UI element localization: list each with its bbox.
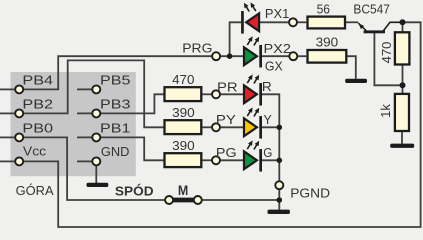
svg-text:PX2: PX2 [263,42,290,56]
resistor 470 vertical [395,32,410,64]
wire LED PX1 anode to pin PX1 [258,21,288,23]
svg-text:PB5: PB5 [100,74,130,88]
pin PB2 [15,109,23,117]
pin PX2 [289,52,297,60]
svg-text:SPÓD: SPÓD [115,184,154,199]
wire Vcc stub left [0,160,14,162]
jumper M shunt [170,198,197,203]
wire PB2 stub left [0,112,14,114]
wire resistor 56 to Q1 emitter [345,21,358,23]
wire PB0 to jumper M [24,137,165,200]
ground under GND pin [87,183,109,187]
wire resistor 470 vertical to resistor 1k [402,66,404,94]
resistor 56 [308,17,346,29]
svg-text:PB3: PB3 [100,98,130,112]
LED Y (yellow) [244,107,262,138]
wire Q1 base to divider node [374,33,402,85]
svg-text:Vcc: Vcc [23,144,47,158]
wire collector node to resistor 470 vertical [402,22,404,31]
svg-text:PR: PR [217,79,238,94]
svg-text:PY: PY [216,112,237,127]
wire GND stub [77,160,92,162]
wire jumper M to PGND node [203,199,280,201]
svg-text:390: 390 [172,105,195,120]
pin PB3 [92,109,100,117]
wire PRG node to LED PX2 anode [221,55,244,57]
svg-text:M: M [178,182,188,198]
connector J1 body (GÓRA/SPÓD header) [11,72,136,176]
svg-text:GND: GND [101,144,130,159]
wire node PRG up to LED PX1 cathode bar [230,22,241,56]
svg-text:470: 470 [379,42,394,64]
svg-text:56: 56 [317,2,330,17]
wire PB0 stub left [0,136,14,138]
pin PRG [212,52,220,60]
wire pin PG to LED G anode [221,159,244,161]
svg-text:PB0: PB0 [22,122,53,136]
pin PY [212,123,220,131]
pin PB0 [15,133,23,141]
wire LED Y cathode to bus [262,126,279,128]
wire GND pin to ground [95,165,97,184]
svg-text:R: R [262,79,272,94]
wire PB1 to resistor 390 (G row) [101,137,164,160]
wire PB1 stub [77,136,92,138]
pin PB5 [92,85,100,93]
wire pin PY to LED Y anode [221,126,244,128]
transistor Q1 collector lead [383,22,403,31]
svg-text:GÓRA: GÓRA [16,183,54,198]
node at divider [400,82,406,88]
svg-text:1k: 1k [378,104,393,118]
pin PGND [275,181,283,189]
svg-text:PB2: PB2 [22,98,53,112]
svg-text:BC547: BC547 [353,2,390,17]
LED R (red) [244,74,262,105]
wire PB2 to resistor 390 (Y row) [24,60,164,127]
pin PG [212,156,220,164]
transistor Q1 BC547 base bar [364,30,385,33]
svg-text:PB4: PB4 [22,74,53,88]
wire resistor 390 to pin PY [202,126,211,128]
wire LED PX2 cathode to pin PX2 [262,55,289,57]
svg-text:G: G [263,145,272,160]
wire LED G cathode to bus [262,159,279,161]
svg-text:390: 390 [316,35,339,50]
pin M2 [194,196,202,204]
svg-text:PRG: PRG [182,41,212,55]
node at collector [400,19,406,25]
wire resistor 470 to pin PR [202,93,211,95]
wire resistor 1k to ground [401,132,403,144]
wire PB3 stub [77,112,92,114]
wire PB4 to PRG pin [24,56,211,89]
wire pin PX2 to resistor 390 [298,55,306,57]
resistor 390 (G row) [165,153,202,167]
wire PB3 to resistor 470 (R row) [101,94,164,113]
pin GND [92,157,100,165]
pin Vcc [15,157,23,165]
svg-text:PX1: PX1 [265,6,289,21]
node at PRG [227,53,233,59]
pin PX1 [289,18,297,26]
ground under resistor 390 (PX2) [345,79,367,83]
svg-text:470: 470 [172,72,194,87]
wire PB4 stub left [0,88,14,90]
wire pin PX1 to resistor 56 [298,21,307,23]
svg-text:PG: PG [216,146,237,160]
resistor 390 (Y row) [165,120,202,134]
node at Y row bus [277,125,283,131]
wire resistor 390 to ground [346,56,356,79]
LED PX2 / GX (green) [244,36,262,67]
wire resistor 390 to pin PG [202,159,211,161]
svg-text:390: 390 [172,138,195,153]
pin PB4 [15,85,23,93]
node at PGND/M [277,197,283,203]
node at G row bus [277,158,283,164]
svg-text:Y: Y [264,113,273,127]
resistor 470 (R row) [165,87,202,101]
pin PB1 [92,133,100,141]
wire LED R cathode to bus [262,94,279,180]
wire PB5 stub [77,88,92,90]
svg-text:PGND: PGND [290,186,330,201]
transistor Q1 emitter lead [358,23,366,31]
ground under resistor 1k [390,144,414,148]
resistor 390 (PX2 row) [308,50,347,63]
LED G (green) [244,140,262,171]
pin PR [212,90,220,98]
svg-text:PB1: PB1 [100,122,130,136]
svg-text:GX: GX [265,59,283,73]
LED PX1 (red, reversed) [241,2,259,33]
ground under PGND node [268,210,290,214]
pin M1 [165,196,173,204]
wire pin PR to LED R anode [221,93,244,95]
wire pin PGND to ground [278,190,280,210]
resistor 1k vertical [395,94,409,131]
